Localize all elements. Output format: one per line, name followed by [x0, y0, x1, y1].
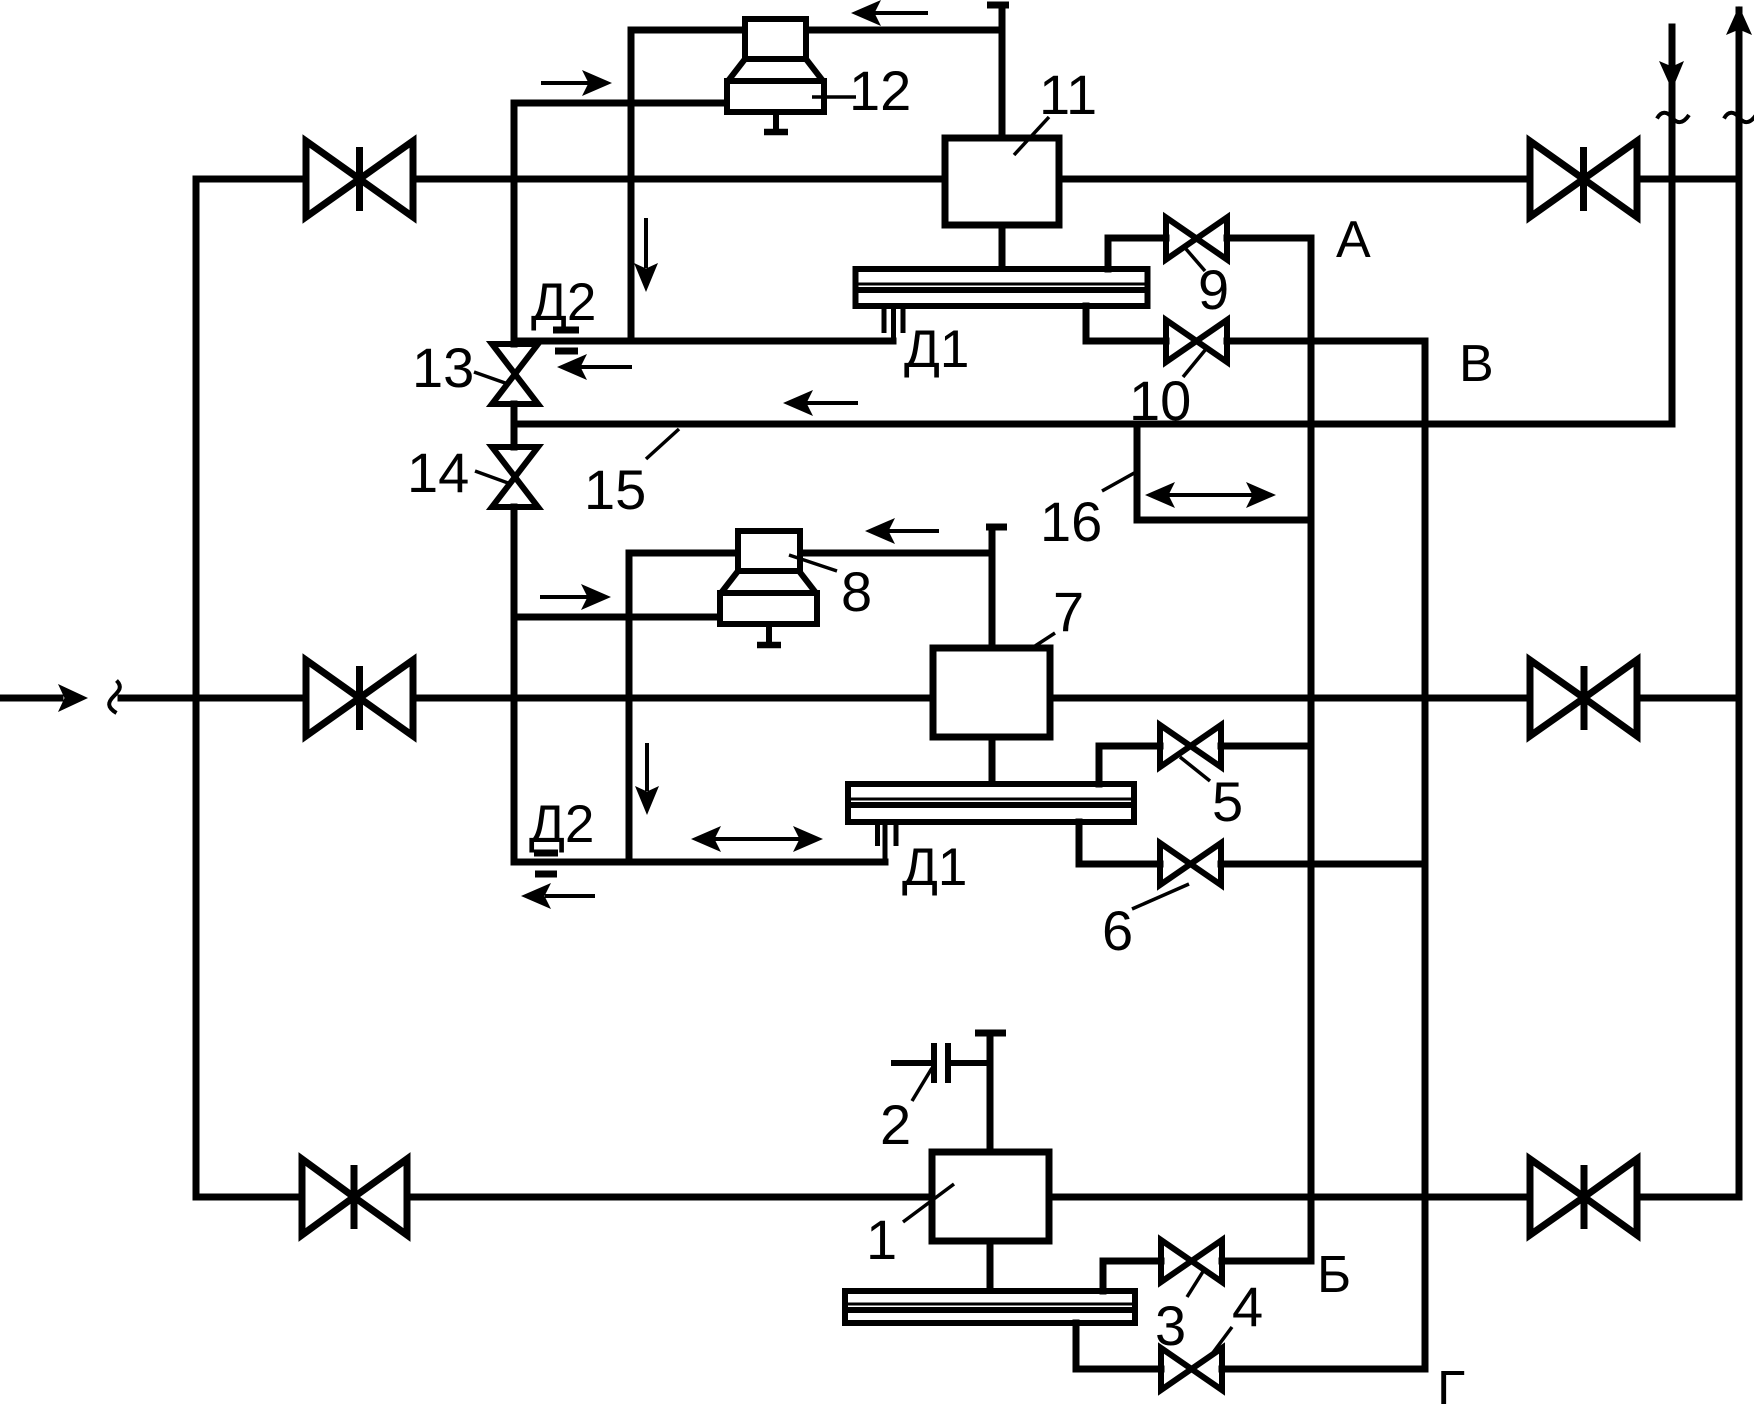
flow arrow left below D2 middle unit: [521, 883, 595, 909]
wire: top plate lower right branch: [1083, 306, 1090, 341]
flow arrow right middle unit: [540, 584, 611, 610]
inlet flow arrow middle pipeline: [58, 684, 88, 712]
svg-text:6: 6: [1102, 899, 1133, 962]
double arrow middle unit: [691, 826, 823, 852]
leader line 11: [1014, 117, 1049, 155]
wire: inlet vertical line at top right: [1669, 27, 1676, 424]
svg-text:Д1: Д1: [902, 838, 967, 897]
svg-text:10: 10: [1129, 369, 1191, 432]
svg-text:8: 8: [841, 560, 872, 623]
wire: node A vertical line: [1308, 238, 1315, 1261]
wire: vertical x514 below valve 14: [511, 507, 518, 862]
wire: bottom plate upper right branch: [1100, 1261, 1107, 1291]
wire: middle unit lower horizontal to bell 8: [514, 614, 720, 621]
wire: valve 4 right line to node G: [1222, 1366, 1425, 1373]
wire: bottom pipeline box 1 to right valve: [1049, 1194, 1530, 1201]
leader line 4: [1209, 1327, 1232, 1358]
leader line 1: [903, 1184, 954, 1222]
wire: bottom pipeline right segment: [1637, 1194, 1739, 1201]
wire: valve 5 right line to node A line: [1221, 743, 1311, 750]
flow arrow left above bell 8: [865, 518, 939, 544]
wire: middle pipeline right segment: [1637, 695, 1739, 702]
flow arrow left above bell 12: [851, 0, 928, 26]
svg-text:4: 4: [1232, 1275, 1263, 1338]
wire: valve 9 left line: [1108, 235, 1166, 242]
wire: bottom plate lower right branch: [1073, 1323, 1080, 1369]
wire: top pipeline segment valve to box 11: [413, 176, 945, 183]
wire: valve 6 left line: [1079, 861, 1160, 868]
svg-text:Б: Б: [1317, 1246, 1351, 1304]
wire: bottom pipeline left segment: [196, 1194, 302, 1201]
wire: valve 6 right line to node B line: [1221, 861, 1425, 868]
wire: valve 3 left line: [1103, 1258, 1161, 1265]
svg-text:16: 16: [1040, 490, 1102, 553]
leader line 7: [1032, 633, 1055, 648]
outlet flow arrow up right border: [1726, 6, 1752, 35]
wire: top plate upper right branch: [1105, 238, 1112, 269]
sensor D2 mark middle unit: [534, 853, 558, 874]
svg-text:15: 15: [584, 458, 646, 521]
wire: vertical x629 middle unit: [626, 553, 633, 862]
valve top-left on top pipeline: [306, 141, 413, 217]
wire: line 15 horizontal: [514, 421, 1672, 428]
valve 4: [1161, 1348, 1222, 1390]
svg-text:А: А: [1336, 211, 1371, 269]
wire: valve 3 right line to node B label: [1222, 1258, 1311, 1265]
leader line 16: [1102, 472, 1136, 491]
double arrow on branch 16: [1145, 482, 1276, 508]
svg-text:12: 12: [849, 59, 911, 122]
wire: top unit lower horizontal to bell 12: [514, 100, 727, 107]
svg-text:5: 5: [1212, 770, 1243, 833]
heat exchanger plate bottom unit: [842, 1288, 1138, 1326]
valve 14: [492, 447, 538, 507]
valve middle-right on middle pipeline: [1530, 660, 1637, 736]
wire: node B vertical line: [1422, 341, 1429, 1369]
flow arrow left on line 15: [783, 390, 858, 416]
valve 3: [1161, 1240, 1222, 1282]
wire: middle unit upper horizontal to bell 8: [629, 550, 992, 557]
pipe break squiggle middle pipeline: [109, 681, 120, 714]
inlet flow arrow down top right: [1659, 61, 1684, 90]
svg-text:Д2: Д2: [529, 795, 594, 854]
valve middle-left on middle pipeline: [306, 660, 413, 736]
leader line 5: [1180, 757, 1210, 781]
sensor D2 mark top unit: [553, 330, 579, 351]
flow arrow right top unit: [541, 70, 612, 96]
wire: right border vertical with outlet arrow: [1736, 10, 1743, 1197]
flow arrow left below D2 top unit: [557, 354, 632, 380]
leader line 6: [1132, 884, 1189, 909]
sensor D1 pins top unit: [884, 309, 903, 341]
valve top-right on top pipeline: [1530, 141, 1637, 217]
wire: middle pipeline box 7 to right valve: [1050, 695, 1530, 702]
valve bottom-right on bottom pipeline: [1530, 1159, 1637, 1235]
pipe break squiggle outlet vertical: [1724, 113, 1754, 122]
leader line 3: [1187, 1270, 1204, 1297]
leader line 12: [812, 95, 856, 99]
valve 9: [1166, 218, 1227, 260]
flow arrow down middle unit: [635, 743, 659, 815]
wire: left border vertical: [193, 179, 200, 1197]
wire: middle pipeline valve to box 7: [413, 695, 933, 702]
wire: branch 16 vertical: [1134, 424, 1141, 520]
heat exchanger plate top unit: [853, 266, 1150, 309]
wire: sensor line D2 to D1 middle unit: [514, 859, 885, 866]
wire: top unit upper horizontal to bell 12: [631, 27, 996, 34]
svg-text:1: 1: [866, 1208, 897, 1271]
leader line 15: [646, 429, 679, 459]
valve 13: [492, 344, 538, 404]
svg-text:В: В: [1459, 335, 1494, 393]
svg-text:Д1: Д1: [904, 320, 969, 379]
regulator box 1: [932, 1033, 1049, 1290]
wire: top pipeline left segment: [196, 176, 306, 183]
wire: valve 4 left line: [1076, 1366, 1161, 1373]
svg-text:11: 11: [1039, 63, 1097, 126]
pilot bell 12: [727, 19, 824, 132]
leader line 2: [912, 1068, 932, 1101]
regulator box 11: [945, 5, 1059, 269]
heat exchanger plate middle unit: [845, 781, 1137, 825]
pilot bell 8: [720, 531, 817, 645]
svg-text:7: 7: [1053, 580, 1084, 643]
pipe break squiggle inlet vertical: [1657, 113, 1689, 122]
wire: top pipeline right segment: [1637, 176, 1739, 183]
svg-text:3: 3: [1155, 1294, 1186, 1357]
svg-text:13: 13: [412, 336, 474, 399]
svg-text:14: 14: [407, 441, 469, 504]
svg-text:2: 2: [880, 1093, 911, 1156]
wire: vertical x514 between valves 13 and 14: [511, 404, 518, 447]
wire: branch 16 horizontal: [1137, 517, 1311, 524]
wire: sensor line D2 to D1 top unit: [514, 338, 893, 345]
valve 6: [1160, 843, 1221, 885]
wire: top pipeline segment box 11 to right valve: [1059, 176, 1530, 183]
svg-text:Д2: Д2: [531, 273, 596, 332]
sensor D1 pins middle unit: [878, 822, 897, 862]
wire: middle pipeline inlet segment: [0, 695, 60, 702]
svg-text:Г: Г: [1437, 1361, 1465, 1404]
regulator box 7: [933, 527, 1050, 784]
wire: valve 10 left line: [1086, 338, 1166, 345]
leader line 14: [475, 471, 508, 483]
valve bottom-left on bottom pipeline: [302, 1159, 407, 1235]
leader line 8: [789, 555, 837, 571]
wire: valve 9 right line to node A: [1227, 235, 1311, 242]
wire: bottom pipeline valve to box 1: [407, 1194, 932, 1201]
leader line 10: [1183, 349, 1206, 377]
wire: middle plate lower right branch: [1076, 822, 1083, 864]
flow arrow down top unit: [634, 218, 658, 292]
wire: middle plate upper right branch: [1096, 746, 1103, 784]
wire: middle pipeline after break: [121, 695, 306, 702]
wire: valve 5 left line: [1099, 743, 1160, 750]
valve 5: [1160, 725, 1221, 767]
impulse device 2 (capacitor symbol): [891, 1043, 990, 1083]
svg-text:9: 9: [1198, 258, 1229, 321]
wire: vertical x631 top unit: [628, 30, 635, 341]
leader line 9: [1186, 249, 1205, 271]
valve 10: [1166, 320, 1227, 362]
wire: valve 10 right line to node B: [1227, 338, 1425, 345]
leader line 13: [474, 372, 508, 384]
wire: vertical x514 upper branch: [511, 103, 518, 344]
